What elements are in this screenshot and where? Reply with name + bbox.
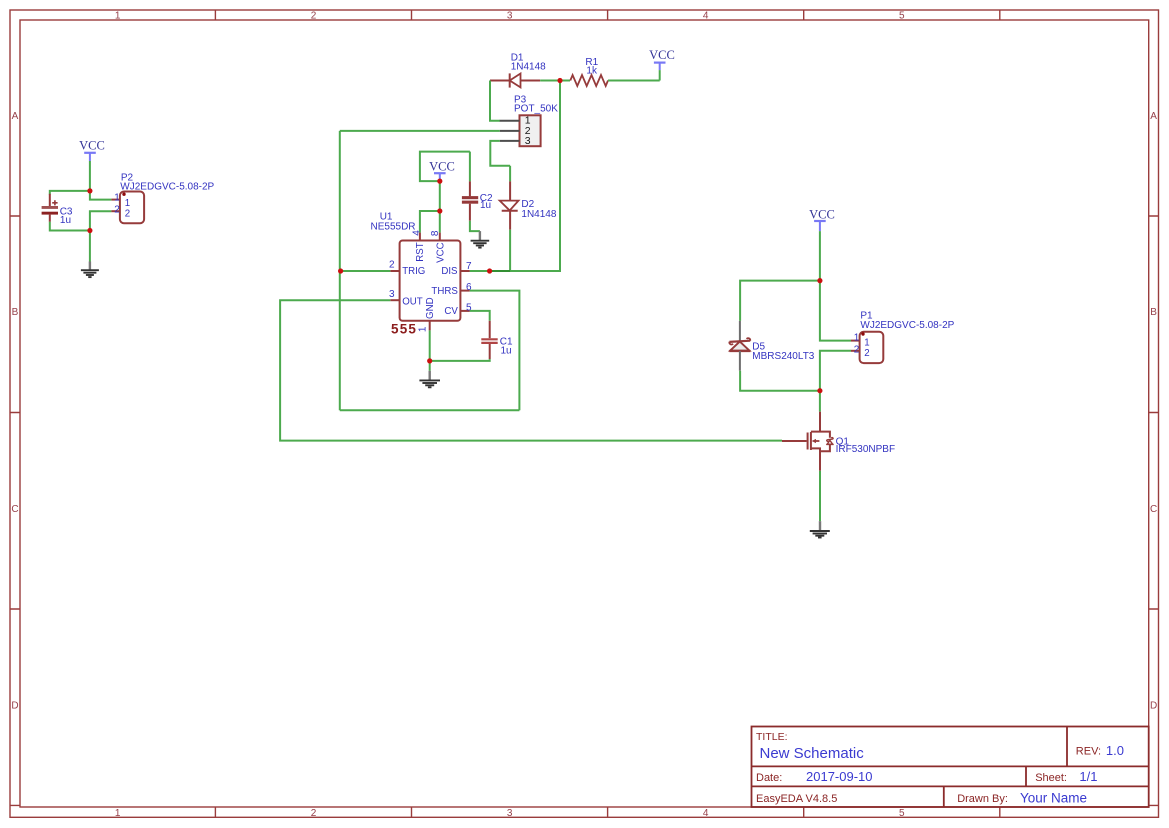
node VCC (middle) — [429, 160, 455, 180]
svg-text:1: 1 — [125, 198, 130, 209]
junction — [427, 358, 432, 363]
wire to ground — [429, 361, 431, 371]
svg-text:TITLE:: TITLE: — [756, 731, 788, 743]
svg-text:D: D — [1150, 700, 1157, 711]
potentiometer P3 POT_50K — [500, 94, 559, 147]
svg-text:CV: CV — [444, 306, 458, 317]
wire P1 pin2 down to drain junction — [820, 351, 851, 391]
svg-text:4: 4 — [703, 808, 709, 819]
wire junction to C3 top — [50, 191, 90, 195]
pin 7 DIS stub — [460, 270, 469, 272]
svg-text:1u: 1u — [501, 346, 512, 357]
wire to C2 — [469, 152, 471, 182]
wire C3 bottom to junction — [50, 222, 90, 231]
diode D5 MBRS240LT3 — [729, 321, 815, 371]
wire C1 bottom to GND junction — [430, 359, 490, 361]
resistor R1 1k — [570, 57, 608, 86]
diode D2 1N4148 — [500, 181, 557, 229]
svg-text:3: 3 — [525, 135, 531, 147]
svg-text:1u: 1u — [480, 200, 491, 211]
svg-text:2: 2 — [114, 204, 120, 215]
svg-text:2: 2 — [311, 11, 317, 22]
svg-text:2: 2 — [125, 209, 130, 220]
svg-text:VCC: VCC — [809, 208, 835, 222]
wire CV to C1 — [470, 311, 490, 321]
svg-text:1: 1 — [418, 326, 429, 332]
pin 8 VCC stub — [439, 233, 441, 241]
junction — [437, 179, 442, 184]
svg-text:1.0: 1.0 — [1106, 743, 1124, 758]
svg-text:8: 8 — [430, 230, 441, 236]
svg-text:1: 1 — [115, 808, 121, 819]
svg-text:5: 5 — [899, 808, 905, 819]
wire overlap dark — [490, 270, 511, 272]
wire TRIG — [340, 270, 391, 272]
wire THRS — [470, 291, 520, 411]
wire D1 left to P3 pin1 — [490, 81, 500, 121]
junction — [437, 208, 442, 213]
wire to D2 — [509, 166, 511, 182]
svg-text:GND: GND — [425, 297, 436, 319]
svg-text:DIS: DIS — [441, 266, 458, 277]
svg-text:New Schematic: New Schematic — [760, 745, 865, 762]
wire C2 bottom to ground — [470, 221, 480, 231]
wire GND pin down — [429, 330, 431, 361]
capacitor C3 — [42, 194, 73, 226]
svg-text:EasyEDA V4.8.5: EasyEDA V4.8.5 — [756, 793, 837, 805]
svg-text:1: 1 — [854, 332, 860, 343]
svg-text:5: 5 — [899, 11, 905, 22]
svg-text:1/1: 1/1 — [1079, 769, 1097, 784]
wire loop left vertical — [339, 131, 341, 410]
svg-text:2017-09-10: 2017-09-10 — [806, 769, 873, 784]
wire to D5 top — [740, 281, 820, 321]
wire loop bottom — [340, 409, 520, 411]
transistor Q1 IRF530NPBF — [782, 412, 895, 471]
junction — [557, 78, 562, 83]
pin 4 RST stub — [419, 233, 421, 241]
svg-text:VCC: VCC — [79, 139, 105, 153]
pin 3 OUT stub — [390, 299, 399, 301]
svg-text:MBRS240LT3: MBRS240LT3 — [752, 351, 815, 362]
svg-text:VCC: VCC — [435, 242, 446, 262]
svg-text:WJ2EDGVC-5.08-2P: WJ2EDGVC-5.08-2P — [860, 320, 954, 331]
svg-text:Your Name: Your Name — [1020, 790, 1087, 805]
svg-text:C: C — [11, 504, 18, 515]
wire VCC stem — [659, 70, 661, 80]
SECTION: 555 timer U1 — [371, 212, 473, 337]
wire VCC to P2 pin1 — [90, 161, 112, 200]
svg-text:3: 3 — [389, 289, 395, 300]
node VCC (top right of R1) — [649, 48, 675, 70]
svg-text:A: A — [1150, 111, 1157, 122]
svg-text:1: 1 — [114, 192, 120, 203]
junction — [817, 278, 822, 283]
ground (under Q1) — [810, 521, 830, 537]
wire D5 bottom to drain junction — [740, 371, 820, 391]
wire VCC stem — [439, 180, 441, 182]
capacitor C2 — [462, 181, 493, 220]
junction — [487, 268, 492, 273]
wire to pin 4 — [420, 211, 440, 233]
svg-text:555: 555 — [391, 322, 417, 337]
svg-text:POT_50K: POT_50K — [514, 103, 558, 114]
svg-text:1: 1 — [115, 11, 121, 22]
svg-text:2: 2 — [311, 808, 317, 819]
svg-text:4: 4 — [703, 11, 709, 22]
svg-text:2: 2 — [389, 260, 395, 271]
wire junction to R1 — [560, 80, 570, 82]
wire P3 pin2 to left loop — [340, 130, 500, 132]
svg-text:Drawn By:: Drawn By: — [957, 793, 1008, 805]
wire junction to Q1 drain — [819, 391, 821, 412]
svg-text:2: 2 — [864, 348, 869, 359]
wire DIS — [470, 270, 560, 272]
svg-text:RST: RST — [415, 242, 426, 261]
ground (under C3/P2) — [81, 262, 99, 278]
junction — [87, 228, 92, 233]
pin 1 GND stub — [429, 321, 431, 331]
svg-text:TRIG: TRIG — [402, 266, 425, 277]
svg-text:3: 3 — [507, 11, 513, 22]
wire VCC down to P1 pin1 — [820, 231, 851, 341]
junction — [338, 268, 343, 273]
svg-text:B: B — [1150, 307, 1157, 318]
svg-text:B: B — [12, 307, 19, 318]
svg-text:2: 2 — [854, 345, 860, 356]
svg-text:1N4148: 1N4148 — [511, 62, 546, 73]
svg-text:Date:: Date: — [756, 772, 782, 784]
wire to ground — [89, 231, 91, 262]
svg-text:THRS: THRS — [431, 286, 458, 297]
svg-text:NE555DR: NE555DR — [371, 221, 416, 232]
wire P2 pin2 down — [90, 211, 112, 230]
svg-text:C: C — [1150, 504, 1157, 515]
svg-text:A: A — [12, 111, 19, 122]
connector P1 WJ2EDGVC-5.08-2P — [851, 311, 955, 364]
capacitor C1 — [481, 321, 513, 359]
wire R1 to VCC — [608, 80, 660, 82]
svg-text:Sheet:: Sheet: — [1035, 772, 1067, 784]
junction — [817, 388, 822, 393]
svg-text:1u: 1u — [60, 215, 71, 226]
wire VCC down — [439, 181, 441, 211]
wire to pin 8 — [439, 211, 441, 233]
diode D1 1N4148 — [490, 53, 546, 88]
svg-text:4: 4 — [412, 230, 423, 236]
wire D1 anode to junction — [540, 80, 560, 82]
connector P2 WJ2EDGVC-5.08-2P — [111, 173, 214, 224]
svg-text:VCC: VCC — [649, 48, 675, 62]
node VCC (left) — [79, 139, 105, 162]
title block — [752, 727, 1149, 808]
wire D2 bottom to DIS — [509, 230, 511, 271]
wire source to ground — [819, 471, 821, 521]
svg-text:VCC: VCC — [429, 160, 455, 174]
node VCC (right) — [809, 208, 835, 232]
pin 5 CV stub — [460, 310, 469, 312]
svg-text:REV:: REV: — [1076, 746, 1101, 758]
wire OUT — [280, 300, 782, 440]
svg-text:3: 3 — [507, 808, 513, 819]
ground (under 555) — [419, 371, 440, 388]
pin 2 TRIG stub — [390, 270, 399, 272]
svg-text:IRF530NPBF: IRF530NPBF — [836, 444, 895, 455]
svg-text:OUT: OUT — [402, 297, 423, 308]
wire P3 pin3 to D2 — [490, 141, 510, 166]
wire VCC loop to C2 top — [420, 152, 470, 182]
pin 6 THRS stub — [460, 290, 469, 292]
wire junction down to DIS — [470, 81, 560, 272]
junction — [87, 188, 92, 193]
ground (under C2) — [471, 231, 490, 248]
svg-text:1N4148: 1N4148 — [521, 209, 556, 220]
svg-text:D: D — [11, 700, 18, 711]
